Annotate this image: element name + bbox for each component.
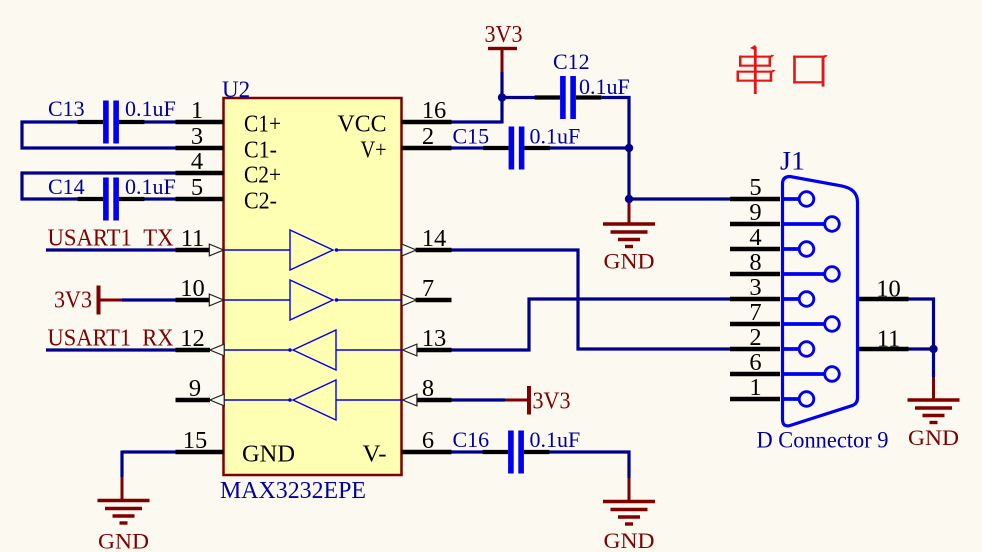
svg-text:5: 5 <box>749 174 761 201</box>
svg-text:3V3: 3V3 <box>485 22 523 48</box>
svg-text:0.1uF: 0.1uF <box>125 174 176 199</box>
svg-text:9: 9 <box>749 199 761 226</box>
svg-text:3V3: 3V3 <box>54 288 92 314</box>
svg-text:C2+: C2+ <box>244 163 281 189</box>
svg-text:0.1uF: 0.1uF <box>530 427 581 452</box>
svg-text:1: 1 <box>191 97 203 124</box>
svg-text:C2-: C2- <box>244 189 277 215</box>
svg-text:U2: U2 <box>222 77 250 102</box>
svg-text:USART1 TX: USART1 TX <box>48 226 174 252</box>
svg-text:14: 14 <box>422 225 447 252</box>
svg-text:C16: C16 <box>453 427 490 452</box>
svg-text:USART1 RX: USART1 RX <box>48 326 174 352</box>
svg-text:GND: GND <box>242 442 295 468</box>
svg-text:2: 2 <box>422 123 434 150</box>
svg-text:2: 2 <box>749 324 761 351</box>
svg-text:C1-: C1- <box>244 138 277 164</box>
svg-text:9: 9 <box>189 375 201 402</box>
svg-text:6: 6 <box>749 349 761 376</box>
svg-text:7: 7 <box>422 275 434 302</box>
svg-text:15: 15 <box>183 427 208 454</box>
svg-text:3V3: 3V3 <box>533 389 571 415</box>
svg-text:J1: J1 <box>780 147 805 176</box>
svg-text:C15: C15 <box>453 124 490 149</box>
svg-text:GND: GND <box>604 249 655 274</box>
svg-text:4: 4 <box>191 148 203 175</box>
svg-text:MAX3232EPE: MAX3232EPE <box>220 477 366 504</box>
svg-text:8: 8 <box>422 375 434 402</box>
svg-text:3: 3 <box>191 123 203 150</box>
svg-text:0.1uF: 0.1uF <box>579 74 630 99</box>
svg-text:3: 3 <box>749 274 761 301</box>
svg-text:VCC: VCC <box>338 112 387 138</box>
svg-text:0.1uF: 0.1uF <box>530 124 581 149</box>
svg-text:GND: GND <box>604 528 655 552</box>
svg-text:10: 10 <box>876 276 901 303</box>
svg-text:C13: C13 <box>48 96 85 121</box>
svg-text:C14: C14 <box>48 174 85 199</box>
svg-text:0.1uF: 0.1uF <box>125 96 176 121</box>
svg-text:6: 6 <box>422 427 434 454</box>
svg-text:11: 11 <box>877 326 901 353</box>
svg-text:GND: GND <box>98 529 149 552</box>
svg-text:12: 12 <box>180 325 205 352</box>
svg-text:4: 4 <box>749 224 761 251</box>
svg-text:8: 8 <box>749 249 761 276</box>
svg-text:D Connector 9: D Connector 9 <box>757 428 889 453</box>
svg-text:GND: GND <box>908 425 959 450</box>
svg-text:10: 10 <box>180 275 205 302</box>
svg-text:1: 1 <box>749 374 761 401</box>
svg-text:C1+: C1+ <box>244 112 281 138</box>
svg-text:7: 7 <box>749 299 761 326</box>
svg-text:13: 13 <box>422 325 447 352</box>
svg-text:5: 5 <box>191 174 203 201</box>
svg-text:V+: V+ <box>361 138 387 164</box>
svg-text:11: 11 <box>181 225 205 252</box>
svg-text:C12: C12 <box>553 49 590 74</box>
svg-text:V-: V- <box>363 442 387 468</box>
svg-text:16: 16 <box>422 97 447 124</box>
